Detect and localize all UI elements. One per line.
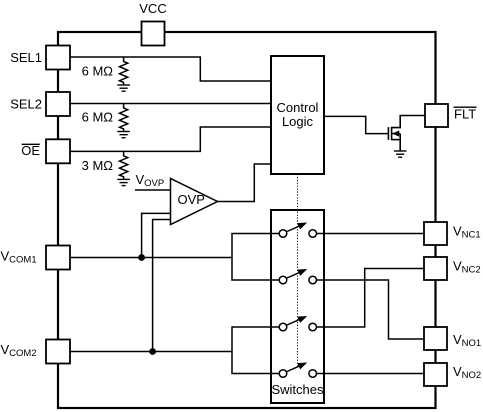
- pin VCOM2: [46, 340, 70, 364]
- wire bracket VCOM1 to SW1/SW2: [232, 234, 279, 281]
- node B junction dot VCOM2: [149, 348, 156, 355]
- pin VNO2: [424, 363, 447, 386]
- transistor Q1 (NMOS): [388, 116, 425, 152]
- svg-text:OE: OE: [21, 143, 40, 158]
- svg-text:VCC: VCC: [139, 1, 166, 16]
- main border: [58, 32, 436, 408]
- wire VCOM1 to switch bracket: [70, 257, 232, 259]
- node A junction dot VCOM1: [138, 254, 145, 261]
- resistor R2 6 MΩ: [120, 104, 128, 132]
- wire bracket VCOM2 to SW3/SW4: [232, 327, 279, 374]
- svg-text:6 MΩ: 6 MΩ: [82, 64, 114, 79]
- switch SW4: [279, 363, 316, 378]
- wire SEL1 to Control Logic: [70, 57, 271, 81]
- pin VNO1: [424, 327, 447, 350]
- wire SW2 to VNO1: [316, 280, 424, 339]
- wire control logic output to MOSFET gate: [324, 116, 388, 133]
- wire SW3 to VNC2: [316, 269, 424, 328]
- pin VCOM1: [46, 246, 70, 270]
- control logic block U1: [271, 56, 324, 174]
- ground (R2): [117, 132, 130, 138]
- pin SEL1: [46, 46, 70, 70]
- switch SW1: [279, 223, 316, 238]
- wire SW1 to VNC1: [316, 233, 424, 235]
- pin OE (active low): [46, 139, 70, 163]
- wire OVP output to Control Logic: [218, 164, 272, 202]
- pin VCC: [142, 22, 165, 46]
- resistor R3 3 MΩ: [120, 151, 128, 179]
- svg-text:Logic: Logic: [282, 114, 314, 129]
- ground (Q1 source): [394, 151, 407, 157]
- svg-text:Control: Control: [277, 100, 319, 115]
- svg-text:FLT: FLT: [454, 107, 476, 122]
- wire OVP mid input from VCOM1 node: [142, 213, 170, 257]
- switch SW3: [279, 316, 316, 331]
- svg-text:Switches: Switches: [271, 382, 324, 397]
- wire OE to Control Logic: [70, 127, 271, 151]
- wire SEL2 to Control Logic: [70, 103, 271, 105]
- dashed control line to switches: [297, 174, 299, 367]
- ground (R3): [117, 179, 130, 185]
- switches block: [271, 210, 324, 403]
- pin VNC1: [424, 222, 447, 245]
- wire VCOM2 to switch bracket: [70, 351, 232, 353]
- svg-text:SEL1: SEL1: [10, 50, 42, 65]
- wire VOVP input: [135, 189, 171, 191]
- svg-text:6 MΩ: 6 MΩ: [82, 110, 114, 125]
- pin FLT (active low): [425, 104, 448, 127]
- svg-text:SEL2: SEL2: [10, 97, 42, 112]
- switch SW2: [279, 269, 316, 284]
- pin VNC2: [424, 257, 447, 280]
- svg-text:3 MΩ: 3 MΩ: [82, 158, 114, 173]
- op-amp U2 OVP comparator: [171, 179, 218, 225]
- wire OVP bottom input from VCOM2 node: [153, 220, 170, 352]
- pin SEL2: [46, 92, 70, 116]
- ground (R1): [117, 85, 130, 91]
- svg-text:OVP: OVP: [178, 192, 205, 207]
- resistor R1 6 MΩ: [120, 57, 128, 85]
- wire SW4 to VNO2: [316, 373, 424, 375]
